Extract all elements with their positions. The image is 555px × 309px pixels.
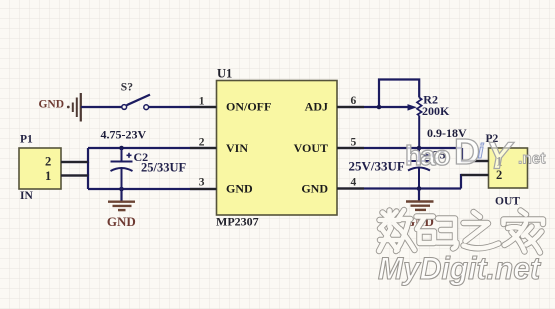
potentiometer R2 (417, 98, 422, 149)
switch S? (122, 95, 150, 110)
svg-text:VOUT: VOUT (294, 141, 328, 155)
wire: riser middle segment (87, 162, 89, 176)
svg-text:4: 4 (351, 177, 357, 189)
pin 2 stub (190, 147, 217, 149)
P1 pin 1 stub (61, 174, 88, 176)
svg-text:2: 2 (45, 155, 51, 169)
earth ground symbol (under C5) (406, 202, 434, 210)
svg-text:5: 5 (351, 137, 357, 149)
svg-text:GND: GND (38, 99, 64, 111)
IC U1 (MP2307 buck regulator) (217, 81, 338, 216)
wire: VOUT drop to P2 pin1 (462, 148, 489, 161)
svg-text:IN: IN (20, 190, 33, 202)
capacitor C2 (111, 148, 133, 189)
capacitor C5 (408, 148, 430, 189)
svg-text:OUT: OUT (495, 196, 520, 208)
svg-text:VIN: VIN (226, 141, 248, 155)
svg-text:200K: 200K (422, 104, 450, 118)
R2 wiper arrow (408, 104, 417, 111)
svg-text:MyDigit.net: MyDigit.net (378, 250, 541, 286)
svg-text:1: 1 (199, 95, 205, 107)
wire: input GND rail (88, 188, 217, 190)
svg-text:i: i (478, 141, 484, 163)
pin 1 stub (190, 106, 217, 108)
junction: C5 bottom (417, 186, 422, 191)
pin 5 stub (337, 147, 364, 149)
svg-text:P1: P1 (20, 134, 33, 146)
svg-text:25/33UF: 25/33UF (141, 160, 187, 174)
earth ground symbol (under C2) (108, 202, 135, 210)
svg-text:4.75-23V: 4.75-23V (101, 128, 147, 142)
svg-text:2: 2 (199, 137, 205, 149)
svg-text:.net: .net (518, 151, 546, 168)
junction: C2 bottom (119, 187, 124, 192)
wire: GND rail rise to P2 pin2 (461, 175, 489, 189)
pin 6 stub (337, 106, 364, 108)
P2 pin 1 stub (462, 160, 489, 162)
watermark haoDiY.net (405, 131, 546, 178)
wire: VOUT rail (337, 147, 462, 149)
wire: C2 to ground stub (120, 189, 122, 201)
svg-text:ADJ: ADJ (305, 100, 328, 114)
connector P1 (19, 148, 61, 189)
svg-text:6: 6 (351, 95, 357, 107)
svg-text:3: 3 (199, 177, 205, 189)
watermark 数码之家 (hollow strokes) (379, 210, 543, 253)
wire: ADJ riser to R2 top (379, 80, 419, 108)
svg-text:1: 1 (45, 169, 51, 183)
svg-text:GND: GND (107, 214, 136, 229)
svg-text:S?: S? (121, 82, 133, 94)
svg-text:GND: GND (226, 181, 253, 195)
svg-text:25V/33UF: 25V/33UF (349, 159, 405, 174)
wire: C5 to ground stub (418, 189, 420, 201)
svg-text:MP2307: MP2307 (216, 215, 259, 229)
pin 4 stub (337, 187, 364, 189)
svg-text:U1: U1 (217, 67, 232, 81)
wire: switch to U1 pin 1 (149, 106, 217, 108)
wire: VIN rail (88, 147, 217, 149)
svg-text:ON/OFF: ON/OFF (226, 100, 271, 114)
P2 pin 2 stub (461, 174, 489, 176)
wire: P1 pin1 to GND rail (61, 176, 88, 190)
junction: C5 top (417, 146, 422, 151)
wire: P1 pin2 to VIN rail (61, 148, 88, 162)
P1 pin 2 stub (61, 161, 88, 163)
wire: left GND to switch (81, 106, 122, 108)
junction: ADJ branch (377, 105, 382, 110)
power ground symbol (left, GND) (67, 93, 81, 122)
wire: U1 ADJ pin 6 (337, 106, 408, 108)
svg-text:GND: GND (301, 181, 328, 195)
pin 3 stub (190, 188, 217, 190)
junction: C2 top (119, 146, 124, 151)
svg-text:hao: hao (405, 140, 451, 171)
svg-text:Y: Y (486, 136, 515, 178)
connector P2 (489, 148, 528, 188)
wire: output GND rail (337, 187, 461, 189)
svg-text:D: D (454, 131, 480, 172)
